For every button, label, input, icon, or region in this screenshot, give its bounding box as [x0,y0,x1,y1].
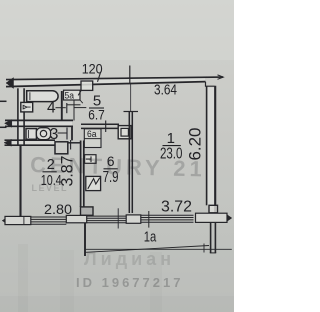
stove symbol [86,176,101,190]
toilet cistern [26,129,36,140]
room1 left wall upper (door zone) [130,84,132,111]
corridor wall line b [83,141,85,208]
top wall left pointed end [6,78,14,89]
fraction bars [43,108,181,172]
window 3.72 glazing [141,215,194,222]
bath sink [21,102,33,112]
right pier arrow tip [227,215,232,222]
balcony right edge inner [210,223,212,254]
window pier right [196,213,228,222]
room1 door tick [124,111,139,113]
kitchen door tick [105,121,107,133]
svg-text:4: 4 [47,99,56,116]
toilet right wall [71,126,73,140]
window pier room2 left [5,216,31,224]
wall pier below toilet [55,142,68,154]
svg-text:3.64: 3.64 [154,83,177,99]
hall shelf line right of 5a line [74,107,86,109]
left edge wall stub upper [0,100,7,102]
leader from 4 [56,107,66,109]
dim tick 120 right [129,66,131,85]
svg-text:CENTURY 21: CENTURY 21 [30,152,206,182]
wall 4/3 left pointed end [5,120,12,128]
dim tick 120 left [98,72,101,82]
top dimension line with right arrow [6,77,223,80]
kitchen top wall [81,123,119,125]
svg-text:120: 120 [82,62,103,77]
svg-text:1а: 1а [144,229,157,246]
svg-text:ID 19677217: ID 19677217 [76,275,183,290]
left edge wall stub lower [0,126,7,128]
bar room 5 [89,107,104,109]
toilet leader tick [66,128,68,140]
window 2.80 glazing [31,217,67,224]
light fill inside wall 3/2 [6,141,55,144]
toilet bowl circle [40,130,46,136]
left exterior wall outer line [17,88,19,146]
svg-text:3: 3 [50,126,59,143]
line below 5a to wall 4/3 [73,100,75,121]
bathtub [27,91,58,102]
room 2 door tick [70,140,72,150]
svg-text:6.7: 6.7 [88,107,105,123]
room 2 left wall [19,146,21,217]
light fill inside top wall [7,77,205,85]
svg-text:5а: 5а [65,90,75,100]
right wall outer [214,86,216,215]
balcony front line b [86,248,232,250]
wall bath/hall [61,91,63,120]
bar room 6 [104,168,118,170]
wall between rooms 4 and 3 [5,119,73,121]
svg-text:3.72: 3.72 [161,199,192,216]
bar room 1 [163,145,181,147]
vent box diagonal tick [78,90,81,95]
kitchen/room1 wall double [128,112,130,213]
bathtub inner left edge [29,92,31,100]
balcony left edge [84,223,86,256]
room and dimension texts [41,62,205,246]
pier box at right wall bottom [209,205,218,213]
hall bottom wall segment to corridor wall [68,142,81,144]
bottom wall left pointed end [2,217,8,225]
kitchen sink symbol [85,155,96,164]
right wall inner [206,86,208,205]
wall between rooms 3 and 2 [5,139,56,141]
wall 3/2 left pointed end [4,139,11,146]
toilet bowl [36,128,50,140]
bar room 2 [43,171,57,173]
tick below 5a [67,104,81,106]
right wall notch [206,82,215,86]
svg-text:6а: 6а [87,129,97,139]
tick on window 3.72 [148,211,150,228]
balcony right edge outer [214,223,216,254]
vent box on top wall [81,81,93,90]
svg-text:2.80: 2.80 [44,201,72,217]
light fill inside wall 4/3 [6,121,72,125]
vent duct kitchen/room1 outer [118,126,131,139]
closet 6a divider line [84,138,101,140]
balcony right edge foot [210,252,216,254]
balcony front line a [86,246,210,253]
diagonal tick at 5a box corner [80,100,83,103]
tall tick between windows [117,208,119,228]
pier inner line [23,217,25,225]
leader from 3 [58,132,67,134]
small tick left of balcony right edge [203,244,205,253]
closet 6a box [84,129,101,148]
light fill inside right wall [208,88,215,206]
left exterior wall inner line [23,88,25,146]
window pier middle [66,215,86,222]
closet 5a box [64,90,81,100]
bath door tick [66,103,68,113]
vent duct inner [121,128,128,136]
svg-text:Лидиан: Лидиан [84,249,175,269]
corridor wall room2/kitchen line a [80,141,82,208]
paper shading patches [0,0,234,60]
pier box at corridor wall base [81,207,94,215]
light fill inside left wall [19,89,23,146]
top wall lower line [6,82,206,87]
pier below kitchen/room1 wall [126,215,141,223]
svg-text:LEVEL: LEVEL [32,183,69,193]
kitchen window glazing [87,216,127,223]
